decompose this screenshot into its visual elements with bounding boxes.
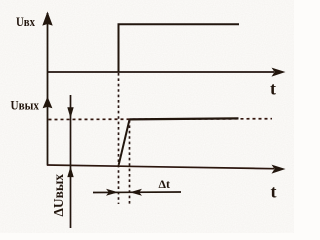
arrowhead right (to step edge) xyxy=(106,189,118,196)
dotted construction line at step edge xyxy=(118,73,120,204)
svg-text:Uвх: Uвх xyxy=(16,14,35,29)
svg-text:Uвых: Uвых xyxy=(11,98,40,113)
svg-text:t: t xyxy=(270,79,276,99)
axis vertical U (shared Uвх / Uвых) xyxy=(47,13,49,166)
arrowhead Uвх axis xyxy=(42,12,52,26)
arrowhead left (to ramp end) xyxy=(130,189,142,196)
arrowhead down (to output level) xyxy=(67,107,73,118)
arrowhead t axis top xyxy=(272,68,286,77)
dotted construction line at ramp end xyxy=(129,120,131,204)
dimension line ΔUвых vertical xyxy=(70,95,72,228)
dimension line Δt horizontal xyxy=(93,191,181,194)
input step signal Uвх xyxy=(119,24,240,72)
output signal high level xyxy=(130,118,239,119)
arrowhead Uвых axis xyxy=(43,97,53,109)
arrowhead t axis bottom xyxy=(272,165,286,174)
dashed output level line xyxy=(49,118,273,121)
svg-text:Δt: Δt xyxy=(159,177,171,191)
output signal ramp xyxy=(119,120,130,165)
svg-text:t: t xyxy=(271,181,277,201)
svg-text:ΔUвых: ΔUвых xyxy=(52,174,67,217)
t axis (top) xyxy=(47,71,274,73)
t axis (bottom) xyxy=(47,165,274,169)
arrowhead up (to baseline) xyxy=(67,166,73,177)
